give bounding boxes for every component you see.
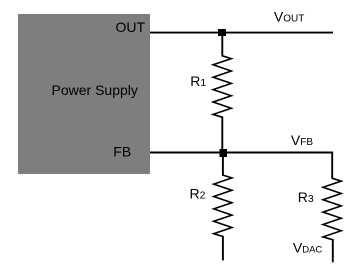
junction node FB/R1/R2 — [220, 149, 228, 157]
wire OUT net — [150, 32, 333, 34]
svg-text:VFB: VFB — [291, 132, 313, 148]
wire R3 bottom stub — [332, 239, 334, 262]
svg-text:VOUT: VOUT — [274, 9, 304, 25]
wire R1 top stub — [221, 33, 223, 57]
resistor R3 — [323, 178, 341, 239]
resistor R1 — [213, 56, 231, 117]
power supply block U1 — [18, 14, 150, 174]
svg-text:Power Supply: Power Supply — [52, 82, 138, 98]
wire R2 bottom stub — [222, 236, 224, 261]
junction node OUT/R1 — [218, 29, 226, 36]
svg-text:R1: R1 — [190, 73, 206, 89]
wire FB net horizontal — [150, 152, 332, 154]
svg-text:VDAC: VDAC — [293, 240, 323, 256]
resistor R2 — [214, 175, 232, 236]
svg-text:FB: FB — [113, 143, 131, 159]
wire R2 top stub — [222, 153, 224, 176]
svg-text:R2: R2 — [190, 186, 206, 202]
wire R1 bottom stub — [221, 117, 223, 153]
svg-text:R3: R3 — [298, 189, 314, 205]
svg-text:OUT: OUT — [116, 19, 146, 35]
wire FB net to R3 — [331, 152, 333, 179]
